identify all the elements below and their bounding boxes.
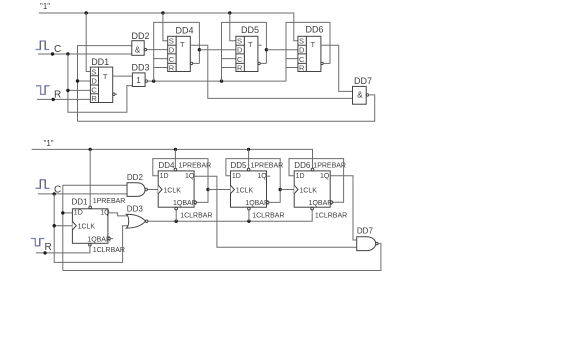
svg-text:1QBAR: 1QBAR — [245, 200, 269, 207]
junction R terminal (bottom) — [43, 251, 46, 254]
junction rail-DD1.S — [85, 11, 88, 14]
AND gate DD2 (top) — [132, 41, 144, 56]
wire DD5 node to DD6.D — [266, 49, 298, 51]
junction feedback-DD1.D — [76, 79, 79, 82]
wire C to DD1.CLK and DD3 input 2 — [54, 194, 128, 263]
junction feedback-DD1.D — [61, 211, 64, 214]
wire DD5 Qbar to node — [260, 62, 266, 64]
pin DD1 QBAR stub — [108, 237, 113, 239]
junction rail-DD1.PRE — [89, 148, 92, 151]
pin DD6 Qbar bubble — [321, 62, 323, 64]
svg-text:1QBAR: 1QBAR — [309, 200, 333, 207]
C input pulse symbol (top) — [36, 41, 50, 50]
label DD5 (bottom) — [231, 161, 248, 170]
wire R line to DD1.CLR — [36, 246, 90, 253]
junction rail-DD5.PRE — [247, 148, 250, 151]
wire DD3 output rail to R inputs — [148, 80, 287, 82]
svg-text:1PREBAR: 1PREBAR — [251, 163, 284, 170]
pin label 1CLRBAR DD1 — [93, 247, 125, 254]
AND gate DD2 (bottom) — [127, 183, 145, 197]
wire DD6.Q to DD7 input 1 — [321, 45, 353, 91]
svg-text:1D: 1D — [74, 210, 83, 217]
svg-text:D: D — [91, 77, 97, 86]
wire DD4 PRE pin — [174, 149, 176, 168]
wire DD7 output feedback loop — [78, 95, 375, 121]
svg-text:1CLRBAR: 1CLRBAR — [93, 247, 125, 254]
svg-text:DD2: DD2 — [127, 173, 144, 182]
svg-text:"1": "1" — [44, 139, 54, 148]
svg-text:DD5: DD5 — [241, 25, 259, 35]
wire DD1.Q to DD3 input 1 — [108, 213, 127, 216]
flip-flop DD5 (top) — [236, 36, 258, 72]
junction rail-DD5.S — [228, 11, 231, 14]
pin DD6 CLR bubble — [311, 207, 314, 210]
pin DD4 PRE bubble — [174, 168, 177, 171]
node R label (bottom) — [45, 242, 52, 253]
svg-text:DD1: DD1 — [72, 198, 89, 207]
junction DD4 Qbar node — [198, 48, 201, 51]
pin label 1CLRBAR DD4 — [180, 213, 212, 220]
svg-text:S: S — [237, 37, 242, 46]
wire DD1 PRE pin — [89, 149, 91, 206]
svg-text:C: C — [54, 44, 61, 55]
pin label 1PREBAR DD6 — [313, 163, 346, 170]
svg-text:R: R — [299, 63, 305, 72]
junction CLRrail-DD5 — [247, 220, 250, 223]
svg-text:DD5: DD5 — [231, 161, 248, 170]
svg-text:C: C — [91, 85, 97, 94]
flip-flop DD1 (top) — [90, 67, 112, 103]
AND gate DD7 (top) — [353, 86, 367, 104]
label DD6 (top) — [306, 25, 324, 35]
svg-text:DD6: DD6 — [294, 161, 311, 170]
label DD7 (bottom) — [357, 227, 374, 236]
pin label 1PREBAR DD4 — [179, 163, 212, 170]
wire DD5 node to DD6.CLK — [280, 189, 294, 191]
R input pulse symbol (top) — [36, 86, 50, 95]
flip-flop DD4 (top) — [168, 36, 191, 72]
pin DD5 QBAR bubble — [267, 201, 269, 203]
pin DD6 QBAR bubble — [330, 201, 332, 203]
wire C line (top) — [38, 53, 132, 55]
svg-text:1CLRBAR: 1CLRBAR — [252, 213, 284, 220]
wire rail to DD1 S input — [86, 13, 90, 72]
svg-text:D: D — [169, 45, 175, 54]
wire feedback to DD2 input 1 and DD1.D — [63, 185, 127, 270]
svg-text:1Q: 1Q — [320, 173, 330, 180]
pin label 1PREBAR DD1 — [93, 198, 126, 205]
junction CLRrail-DD4 — [175, 220, 178, 223]
flip-flop DD4 (bottom) — [158, 171, 197, 207]
junction C terminal — [51, 52, 54, 55]
wire DD6 C/R branch vertical — [286, 22, 330, 81]
pin label 1PREBAR DD5 — [251, 163, 284, 170]
svg-text:1: 1 — [136, 76, 141, 85]
svg-text:DD6: DD6 — [306, 25, 324, 35]
pin DD7 output bubble — [376, 242, 378, 244]
svg-text:1CLRBAR: 1CLRBAR — [315, 213, 347, 220]
svg-text:DD4: DD4 — [176, 26, 194, 36]
wire DD5 QBAR loop to 1D — [226, 159, 280, 203]
junction C terminal (bottom) — [53, 192, 56, 195]
svg-text:S: S — [91, 67, 96, 76]
svg-text:1Q: 1Q — [185, 173, 195, 180]
svg-text:DD7: DD7 — [354, 76, 372, 86]
label DD4 (top) — [176, 26, 194, 36]
wire feedback to DD2 input 1 and DD1.D — [78, 46, 132, 122]
svg-text:1D: 1D — [232, 173, 241, 180]
svg-text:1PREBAR: 1PREBAR — [93, 198, 126, 205]
wire DD7 output feedback loop (bottom) — [63, 244, 381, 271]
wire DD6.Q to DD7 input 1 — [330, 176, 357, 240]
wire DD4 node to DD5.D — [199, 49, 236, 51]
wire rail to DD4 S input — [163, 13, 168, 41]
junction C branch — [66, 52, 69, 55]
svg-text:&: & — [135, 45, 141, 54]
OR gate DD3 (bottom) — [126, 214, 145, 228]
pin DD5 CLR bubble — [248, 207, 251, 210]
svg-text:1PREBAR: 1PREBAR — [313, 163, 346, 170]
svg-text:1CLK: 1CLK — [163, 188, 181, 195]
svg-text:1CLK: 1CLK — [78, 224, 96, 231]
flip-flop DD6 (bottom) — [294, 171, 332, 207]
label DD6 (bottom) — [294, 161, 311, 170]
pin DD3 output bubble — [146, 220, 148, 222]
junction C-DD1.CLK — [53, 224, 56, 227]
wire DD6 QBAR loop to 1D — [289, 159, 344, 203]
wire DD5 C/R branch vertical — [222, 22, 267, 81]
svg-text:DD7: DD7 — [357, 227, 374, 236]
wire "1" rail (top) — [39, 13, 298, 41]
wire DD4 node to DD5.CLK — [208, 189, 231, 191]
svg-text:DD3: DD3 — [127, 205, 144, 214]
AND gate DD7 (bottom) — [357, 237, 376, 251]
label DD3 (bottom) — [127, 205, 144, 214]
label DD5 (top) — [241, 25, 259, 35]
svg-text:T: T — [311, 40, 316, 49]
svg-text:DD2: DD2 — [132, 31, 150, 41]
pin DD7 output bubble — [366, 94, 368, 96]
label DD7 (top) — [354, 76, 372, 86]
label DD1 (top) — [91, 57, 109, 67]
pin DD4 Qbar bubble — [190, 62, 192, 64]
junction DD4 QBAR node — [206, 188, 209, 191]
pin DD1 CLR bubble — [89, 244, 92, 247]
svg-text:D: D — [237, 45, 243, 54]
svg-text:R: R — [91, 94, 97, 103]
flip-flop DD5 (bottom) — [231, 171, 270, 207]
junction DD5 Qbar node — [265, 48, 268, 51]
pin label 1CLRBAR DD5 — [252, 213, 284, 220]
svg-text:1QBAR: 1QBAR — [173, 200, 197, 207]
OR gate DD3 (top) — [132, 73, 145, 87]
svg-text:T: T — [103, 72, 108, 81]
pin DD5 Qbar bubble — [258, 62, 260, 64]
svg-text:1CLK: 1CLK — [236, 188, 254, 195]
pin DD4 CLR bubble — [175, 207, 178, 210]
svg-text:DD1: DD1 — [91, 57, 109, 67]
svg-text:1Q: 1Q — [257, 173, 267, 180]
R input pulse symbol (bottom) — [31, 239, 45, 246]
svg-text:T: T — [248, 40, 253, 49]
wire DD4 QBAR loop to 1D — [153, 159, 208, 203]
svg-text:&: & — [357, 90, 363, 99]
svg-text:T: T — [180, 40, 185, 49]
wire R line (top) — [37, 98, 90, 100]
svg-text:1CLRBAR: 1CLRBAR — [180, 213, 212, 220]
wire DD4.Q to DD7 input 2 — [190, 45, 352, 98]
node C label (bottom) — [54, 185, 61, 196]
svg-text:R: R — [169, 63, 175, 72]
node C label (top) — [54, 44, 61, 55]
wire DD4 Qbar to node — [193, 62, 200, 64]
junction rail-DD4.PRE — [174, 148, 177, 151]
svg-text:R: R — [237, 63, 243, 72]
pin DD5 Q stub — [267, 175, 271, 177]
wire C down to DD1.C and DD3 input 2 — [68, 54, 132, 112]
svg-text:S: S — [169, 37, 174, 46]
net "1" label (top) — [40, 2, 50, 11]
junction DD5 QBAR node — [279, 188, 282, 191]
svg-text:1D: 1D — [160, 173, 169, 180]
label DD2 (bottom) — [127, 173, 144, 182]
flip-flop DD6 (top) — [298, 36, 321, 72]
junction DD3rail-DD5 — [220, 79, 223, 82]
label DD2 (top) — [132, 31, 150, 41]
pin DD5 PRE bubble — [247, 168, 250, 171]
net "1" label (bottom) — [44, 139, 54, 148]
pin DD5 Q stub — [258, 44, 262, 46]
svg-text:1QBAR: 1QBAR — [87, 237, 111, 244]
C input pulse symbol (bottom) — [36, 180, 50, 189]
wire DD3 output CLR rail — [148, 210, 312, 221]
wire rail to DD5 S input — [230, 13, 236, 41]
svg-text:1PREBAR: 1PREBAR — [179, 163, 212, 170]
wire "1" rail (bottom) — [32, 149, 313, 168]
svg-text:S: S — [299, 37, 304, 46]
svg-text:DD3: DD3 — [132, 63, 150, 73]
label DD1 (bottom) — [72, 198, 89, 207]
pin DD4 QBAR bubble — [194, 201, 196, 203]
node R label (top) — [54, 90, 61, 101]
wire DD5 PRE pin — [248, 149, 250, 168]
pin DD2 output bubble — [145, 188, 147, 190]
svg-text:1CLK: 1CLK — [299, 188, 317, 195]
wire C line (bottom) — [38, 193, 127, 195]
flip-flop DD1 (bottom) — [72, 209, 111, 244]
pin DD3 output bubble — [145, 80, 147, 82]
svg-text:DD4: DD4 — [159, 161, 176, 170]
pin DD1 Qbar stub — [113, 93, 117, 95]
wire DD5 CLR pin — [248, 210, 250, 221]
wire DD6 Qbar to loop — [323, 62, 330, 64]
wire DD2 out to DD4.D — [147, 49, 168, 51]
pin DD2 output bubble — [144, 48, 146, 50]
junction C-DD1.C — [66, 89, 69, 92]
label DD4 (bottom) — [159, 161, 176, 170]
svg-text:"1": "1" — [40, 2, 50, 11]
wire DD4.Q to DD7 input 2 — [194, 176, 357, 247]
wire DD1.Q to DD3 input 1 — [113, 75, 133, 77]
junction DD3rail-DD4 — [152, 79, 155, 82]
svg-text:D: D — [299, 45, 305, 54]
junction rail-DD4.S — [161, 11, 164, 14]
label DD3 (top) — [132, 63, 150, 73]
wire DD4 C/R branch vertical — [154, 22, 200, 81]
pin DD1 PRE bubble — [89, 206, 92, 209]
pin label 1CLRBAR DD6 — [315, 213, 347, 220]
wire DD2 out to DD4.CLK — [147, 189, 158, 191]
pin DD6 PRE bubble — [311, 168, 314, 171]
junction R terminal — [52, 98, 55, 101]
svg-text:1D: 1D — [296, 173, 305, 180]
wire DD4 CLR pin — [175, 210, 177, 221]
svg-text:R: R — [54, 90, 61, 101]
